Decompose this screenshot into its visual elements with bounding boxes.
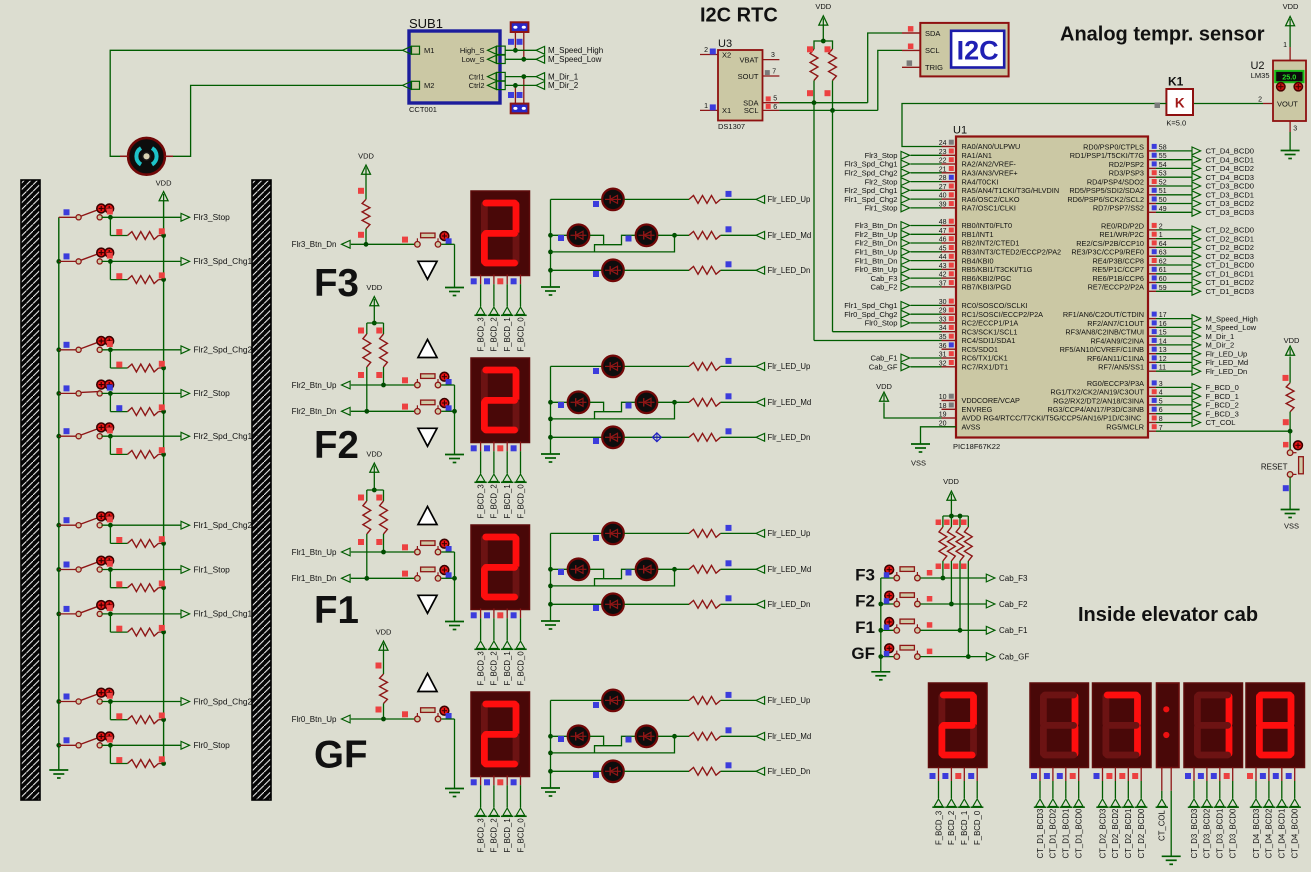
resistor pullup Flr0_Stop (110, 745, 166, 767)
connector J1 (511, 22, 529, 32)
U1 pin 49 right (1093, 204, 1254, 217)
svg-text:CT_D4_BCD0: CT_D4_BCD0 (1206, 147, 1255, 156)
svg-text:RF3/AN8/C2INB/CTMUI: RF3/AN8/C2INB/CTMUI (1065, 328, 1144, 337)
svg-text:VDD: VDD (876, 382, 892, 391)
svg-text:F1: F1 (314, 589, 359, 632)
svg-text:RA5/AN4/T1CKI/T3G/HLVDIN: RA5/AN4/T1CKI/T3G/HLVDIN (962, 186, 1060, 195)
terminal Flr_LED_Md F1 (658, 560, 811, 574)
wire LED mid bypass GF (551, 734, 677, 753)
svg-text:1: 1 (1283, 42, 1287, 49)
svg-text:Flr_LED_Dn: Flr_LED_Dn (768, 767, 811, 776)
svg-text:F3: F3 (855, 566, 875, 585)
svg-text:RG3/CCP4/AN17/P3D/C3INB: RG3/CCP4/AN17/P3D/C3INB (1047, 405, 1144, 414)
U1 pin 7 right (1106, 423, 1163, 432)
terminal F_BCD_3 of GF (471, 776, 487, 853)
svg-text:RE2/CS/P2B/CCP10: RE2/CS/P2B/CCP10 (1076, 239, 1144, 248)
U1 pin 47 RB1 (855, 228, 994, 240)
7-seg display clock D2 (1093, 683, 1152, 768)
svg-text:F_BCD_3: F_BCD_3 (476, 818, 485, 852)
U1 pin 50 right (1067, 195, 1254, 208)
LED F3 mid-b (590, 225, 658, 252)
pin Ctrl2 (469, 81, 506, 90)
U1 pin 37 RB7 (870, 280, 1011, 292)
terminal Flr1_Btn_Dn (292, 571, 415, 584)
wire SCL net (779, 50, 902, 112)
svg-text:VDDCORE/VCAP: VDDCORE/VCAP (962, 396, 1021, 405)
connector J2 (511, 104, 529, 114)
svg-text:CT_COL: CT_COL (1206, 418, 1236, 427)
svg-text:RB3/INT3/CTED2/ECCP2/PA2: RB3/INT3/CTED2/ECCP2/PA2 (962, 248, 1062, 257)
pin Low_S (462, 55, 506, 64)
power VDD cab (943, 477, 959, 516)
U1 pin 51 right (1069, 186, 1254, 199)
U1 pin 29 RC1 (844, 307, 1043, 319)
svg-text:Flr_LED_Dn: Flr_LED_Dn (768, 433, 811, 442)
svg-text:Flr_LED_Dn: Flr_LED_Dn (768, 600, 811, 609)
button Flr2_Btn_Up (415, 372, 455, 388)
pin High_S (460, 46, 505, 55)
7-seg display F3 (471, 191, 530, 276)
svg-text:RF7/AN5/SS1: RF7/AN5/SS1 (1098, 363, 1144, 372)
subcircuit SUB1 body (409, 16, 500, 114)
svg-text:VDD: VDD (815, 2, 831, 11)
resistors F2 buttons (358, 283, 387, 411)
svg-text:F_BCD_1: F_BCD_1 (503, 651, 512, 685)
svg-text:F_BCD_1: F_BCD_1 (960, 811, 969, 845)
RTC U3 body (718, 38, 763, 131)
svg-text:RE4/P3B/CCP8: RE4/P3B/CCP8 (1092, 256, 1144, 265)
svg-text:RESET: RESET (1261, 462, 1288, 471)
terminal Flr1_Spd_Chg1 (102, 605, 253, 619)
svg-text:Flr_LED_Up: Flr_LED_Up (768, 529, 812, 538)
7-seg display F2 (471, 358, 530, 443)
wire LED rail F1 (548, 533, 553, 606)
ground cab (871, 672, 890, 680)
svg-text:CT_D2_BCD3: CT_D2_BCD3 (1098, 809, 1107, 859)
svg-text:F_BCD_1: F_BCD_1 (503, 317, 512, 351)
LED GF down (551, 761, 624, 783)
svg-text:K1: K1 (1168, 75, 1184, 89)
LED F1 up (551, 523, 624, 545)
terminal Flr_LED_Up F2 (624, 358, 811, 371)
terminal Flr2_Stop (102, 385, 231, 399)
svg-text:Flr1_Spd_Chg2: Flr1_Spd_Chg2 (194, 520, 253, 530)
svg-text:M_Speed_Low: M_Speed_Low (1206, 323, 1257, 332)
svg-text:F_BCD_1: F_BCD_1 (503, 818, 512, 852)
svg-text:Flr2_Stop: Flr2_Stop (194, 388, 231, 398)
I2C debugger logo (951, 31, 1004, 68)
terminal Flr_LED_Up F3 (624, 191, 811, 204)
button Flr1_Btn_Dn (415, 566, 455, 582)
svg-text:CT_D3_BCD2: CT_D3_BCD2 (1206, 199, 1255, 208)
U1 pin 42 RB6 (870, 271, 1011, 283)
elevator shaft rail right (252, 180, 271, 800)
svg-text:VDD: VDD (376, 628, 392, 637)
ground LED F1 (541, 604, 560, 629)
svg-text:Flr2_Stop: Flr2_Stop (865, 177, 898, 186)
svg-text:F_BCD_0: F_BCD_0 (516, 317, 525, 352)
button cab F1 (884, 618, 920, 634)
terminal Flr_LED_Dn F1 (624, 595, 810, 609)
svg-text:CT_COL: CT_COL (1158, 810, 1167, 841)
U1 pin 63 right (1071, 248, 1254, 261)
svg-text:Flr0_Btn_Up: Flr0_Btn_Up (855, 265, 898, 274)
svg-text:RB2/INT2/CTED1: RB2/INT2/CTED1 (962, 239, 1020, 248)
svg-text:1: 1 (704, 103, 708, 110)
svg-text:VOUT: VOUT (1277, 100, 1298, 109)
terminals CT_D3 (1185, 768, 1239, 859)
svg-text:TRIG: TRIG (925, 63, 943, 72)
resistor cab GF (961, 516, 972, 659)
svg-text:RA0/AN0/ULPWU: RA0/AN0/ULPWU (962, 142, 1021, 151)
svg-text:51: 51 (1159, 188, 1167, 195)
button RESET (1261, 431, 1303, 477)
I2C debugger body (920, 23, 1008, 77)
svg-text:Flr3_Spd_Chg1: Flr3_Spd_Chg1 (844, 160, 897, 169)
terminal F_BCD_2 of GF (484, 776, 500, 853)
switch Flr0_Spd_Chg2 (56, 688, 113, 704)
svg-text:M_Speed_High: M_Speed_High (548, 46, 603, 55)
svg-text:VDD: VDD (1284, 336, 1300, 345)
U1 pin 21 RA3 (844, 166, 1017, 178)
pin SOUT (738, 68, 780, 81)
svg-text:Flr2_Btn_Up: Flr2_Btn_Up (292, 381, 337, 390)
button Flr1_Btn_Up (415, 539, 455, 555)
U1 pin 1 right (1099, 230, 1254, 243)
wire M1 (110, 50, 402, 156)
svg-text:VDD: VDD (366, 283, 382, 292)
LED F3 mid-a (551, 225, 590, 247)
svg-text:RF5/AN10/CVREF/C1INB: RF5/AN10/CVREF/C1INB (1060, 345, 1144, 354)
terminal Flr3_Stop (102, 209, 231, 223)
svg-text:Flr1_Spd_Chg1: Flr1_Spd_Chg1 (844, 301, 897, 310)
svg-text:RD3/PSP3: RD3/PSP3 (1109, 169, 1144, 178)
I2C debugger pin SCL (902, 44, 940, 56)
svg-text:GF: GF (314, 734, 367, 777)
terminal F_BCD_1 of F2 (497, 442, 513, 519)
svg-text:Flr3_Stop: Flr3_Stop (865, 151, 898, 160)
svg-text:Cab_F3: Cab_F3 (870, 274, 897, 283)
svg-text:RD2/PSP2: RD2/PSP2 (1109, 160, 1144, 169)
svg-text:CT_D1_BCD0: CT_D1_BCD0 (1075, 808, 1084, 858)
U1 pin 6 right (1047, 405, 1238, 418)
U1 pin 62 right (1092, 256, 1254, 269)
svg-text:Flr0_Spd_Chg2: Flr0_Spd_Chg2 (844, 310, 897, 319)
svg-text:F_BCD_2: F_BCD_2 (490, 818, 499, 852)
svg-text:24: 24 (939, 140, 947, 147)
svg-text:18: 18 (939, 403, 947, 410)
terminal F_BCD_3 of F3 (471, 275, 487, 352)
U1 pin 12 right (1087, 354, 1248, 367)
wire cab left rail (878, 578, 883, 672)
LED F3 up (551, 189, 624, 211)
svg-text:CT_D4_BCD2: CT_D4_BCD2 (1206, 164, 1255, 173)
terminal Flr_LED_Up F1 (624, 525, 811, 538)
svg-text:Flr_LED_Md: Flr_LED_Md (768, 565, 812, 574)
svg-text:RE3/P3C/CCP9/REF0: RE3/P3C/CCP9/REF0 (1071, 248, 1144, 257)
svg-text:M_Dir_1: M_Dir_1 (1206, 332, 1235, 341)
svg-text:F_BCD_3: F_BCD_3 (1206, 409, 1239, 418)
svg-text:CT_D1_BCD0: CT_D1_BCD0 (1206, 261, 1255, 270)
svg-text:VDD: VDD (358, 152, 374, 161)
pin M1 (403, 46, 435, 55)
svg-text:Inside elevator cab: Inside elevator cab (1078, 604, 1258, 626)
svg-text:Cab_GF: Cab_GF (869, 363, 898, 372)
terminal Flr2_Btn_Dn (292, 404, 415, 417)
svg-text:Cab_F1: Cab_F1 (870, 354, 897, 363)
title I2C RTC (700, 5, 778, 27)
svg-text:CT_D2_BCD1: CT_D2_BCD1 (1124, 809, 1133, 859)
svg-text:CT_D3_BCD3: CT_D3_BCD3 (1206, 208, 1255, 217)
button Flr3_Btn_Dn (415, 232, 455, 248)
svg-text:F_BCD_2: F_BCD_2 (490, 317, 499, 351)
svg-text:VDD: VDD (943, 477, 959, 486)
U1 pin 60 right (1092, 274, 1254, 287)
LM35 U2 body (1250, 60, 1306, 121)
svg-text:RA3/AN3/VREF+: RA3/AN3/VREF+ (962, 169, 1018, 178)
terminals CT_D1 (1031, 768, 1085, 859)
U1 pin 28 RA4 (865, 175, 999, 187)
svg-text:ENVREG: ENVREG (962, 405, 993, 414)
svg-text:Cab_F2: Cab_F2 (870, 283, 897, 292)
svg-text:X1: X1 (722, 106, 731, 115)
terminal CT_COL (1156, 768, 1168, 842)
svg-text:Flr1_Spd_Chg1: Flr1_Spd_Chg1 (194, 609, 253, 619)
resistor cab F1 (953, 516, 964, 633)
pin M2 (403, 81, 435, 90)
7-seg display cab floor (929, 683, 988, 768)
svg-text:Flr1_Btn_Up: Flr1_Btn_Up (292, 548, 337, 557)
svg-text:F_BCD_2: F_BCD_2 (1206, 401, 1239, 410)
svg-text:RB7/KBI3/PGD: RB7/KBI3/PGD (962, 283, 1012, 292)
pin VOUT wire (1193, 97, 1273, 104)
svg-text:RA7/OSC1/CLKI: RA7/OSC1/CLKI (962, 204, 1016, 213)
svg-text:Flr3_Spd_Chg1: Flr3_Spd_Chg1 (194, 256, 253, 266)
ground LED GF (541, 771, 560, 796)
wire connector J1 (508, 32, 526, 62)
terminal Cab_GF (920, 649, 1029, 662)
svg-text:F1: F1 (855, 618, 875, 637)
LED F1 mid-a (551, 559, 590, 581)
svg-text:CT_D2_BCD2: CT_D2_BCD2 (1111, 809, 1120, 859)
svg-text:M2: M2 (424, 81, 434, 90)
terminal Flr_LED_Dn F2 (624, 428, 810, 442)
svg-text:F_BCD_2: F_BCD_2 (490, 651, 499, 685)
terminal Flr2_Spd_Chg2 (102, 341, 253, 355)
svg-text:35: 35 (939, 334, 947, 341)
LM35 display (1275, 71, 1303, 82)
svg-text:Cab_F3: Cab_F3 (999, 574, 1028, 583)
svg-text:High_S: High_S (460, 46, 485, 55)
pin Ctrl1 (469, 72, 506, 81)
LED GF mid-b (590, 726, 658, 753)
terminal F_BCD_2 of F2 (484, 442, 500, 519)
svg-text:RA4/T0CKI: RA4/T0CKI (962, 177, 999, 186)
svg-text:Ctrl1: Ctrl1 (469, 72, 485, 81)
svg-text:Flr_LED_Md: Flr_LED_Md (1206, 358, 1249, 367)
resistor pullup Flr1_Spd_Chg1 (110, 614, 166, 636)
svg-text:RE7/ECCP2/P2A: RE7/ECCP2/P2A (1088, 283, 1145, 292)
svg-text:M_Dir_2: M_Dir_2 (548, 81, 579, 90)
terminal Flr3_Spd_Chg1 (102, 253, 253, 267)
U1 pin 10 VDDCORE (939, 394, 1020, 406)
LM35 knobs (1277, 83, 1303, 109)
svg-text:F_BCD_0: F_BCD_0 (516, 818, 525, 853)
ground GF buttons (445, 719, 464, 797)
U1 pin 54 right (1109, 160, 1254, 173)
svg-text:Flr_LED_Md: Flr_LED_Md (768, 231, 812, 240)
svg-text:M1: M1 (424, 46, 434, 55)
resistor pullup Flr2_Spd_Chg2 (110, 350, 166, 372)
U1 pin 35 RC4 (939, 334, 1016, 346)
svg-text:RF1/AN6/C2OUT/CTDIN: RF1/AN6/C2OUT/CTDIN (1063, 310, 1144, 319)
ground LED F3 (541, 270, 560, 295)
ground reset (1281, 477, 1300, 530)
svg-text:SCL: SCL (744, 106, 759, 115)
terminal Flr3_Btn_Dn (292, 237, 415, 250)
svg-text:K: K (1175, 96, 1185, 111)
svg-text:RD5/PSP5/SDI2/SDA2: RD5/PSP5/SDI2/SDA2 (1069, 186, 1144, 195)
wire cab rail (943, 514, 968, 519)
terminal F_BCD_1 of GF (497, 776, 513, 853)
terminal F_BCD_1 of F3 (497, 275, 513, 352)
label GF (314, 734, 367, 777)
U1 pin 17 right (1063, 310, 1258, 323)
wire LED rail GF (548, 700, 553, 773)
U1 pin 46 RB2 (855, 236, 1020, 248)
svg-text:VDD: VDD (1283, 2, 1299, 11)
wire M2 (167, 85, 403, 156)
U1 pin 53 right (1109, 169, 1254, 182)
LED F2 down (551, 427, 624, 449)
terminal Flr0_Spd_Chg2 (102, 693, 253, 707)
up arrow GF (418, 674, 437, 692)
ground colon (1162, 768, 1181, 865)
svg-text:I2C RTC: I2C RTC (700, 5, 778, 27)
svg-text:Flr2_Spd_Chg1: Flr2_Spd_Chg1 (844, 186, 897, 195)
svg-text:F_BCD_1: F_BCD_1 (503, 484, 512, 518)
svg-text:CT_D3_BCD1: CT_D3_BCD1 (1216, 809, 1225, 859)
wire SDA net (779, 33, 902, 105)
svg-text:Analog tempr. sensor: Analog tempr. sensor (1060, 24, 1265, 46)
svg-text:M_Dir_1: M_Dir_1 (548, 72, 579, 81)
terminal M_Dir_2 (505, 81, 579, 90)
svg-text:CT_D2_BCD2: CT_D2_BCD2 (1206, 243, 1255, 252)
resistor pullup Flr0_Spd_Chg2 (110, 702, 166, 724)
svg-text:X2: X2 (722, 50, 731, 59)
U1 pin 15 right (1065, 328, 1234, 341)
resistor SDA pullup (807, 41, 823, 103)
U1 pin 45 RB3 (855, 245, 1061, 257)
power rail VDD (156, 178, 172, 763)
button cab F3 (884, 565, 920, 581)
svg-text:Flr2_Spd_Chg2: Flr2_Spd_Chg2 (844, 169, 897, 178)
U1 pin 27 RA5 (844, 184, 1059, 196)
svg-text:RA2/AN2/VREF-: RA2/AN2/VREF- (962, 160, 1017, 169)
U1 pin 64 right (1076, 239, 1254, 252)
svg-text:VSS: VSS (1284, 522, 1299, 531)
svg-text:RC5/SDO1: RC5/SDO1 (962, 345, 999, 354)
svg-text:Flr1_Stop: Flr1_Stop (865, 204, 898, 213)
svg-text:34: 34 (939, 325, 947, 332)
svg-text:Flr2_Btn_Dn: Flr2_Btn_Dn (855, 239, 898, 248)
terminal Flr0_Btn_Up (292, 711, 415, 724)
svg-text:RF6/AN11/C1INA: RF6/AN11/C1INA (1087, 354, 1144, 363)
wire left sensor bus (58, 217, 60, 761)
svg-text:RC2/ECCP1/P1A: RC2/ECCP1/P1A (962, 319, 1019, 328)
svg-text:RG2/RX2/DT2/AN18/C3INA: RG2/RX2/DT2/AN18/C3INA (1053, 396, 1144, 405)
svg-text:Cab_F1: Cab_F1 (999, 626, 1028, 635)
I2C debugger pin TRIG (902, 60, 943, 72)
U1 pin 24 RA0 (939, 140, 1021, 152)
svg-text:CT_D4_BCD0: CT_D4_BCD0 (1291, 808, 1300, 858)
7-seg display clock D1 (1030, 683, 1089, 768)
terminal Flr2_Spd_Chg1 (102, 427, 253, 441)
svg-text:CT_D2_BCD0: CT_D2_BCD0 (1206, 226, 1255, 235)
LED F1 down (551, 594, 624, 616)
svg-text:CT_D4_BCD1: CT_D4_BCD1 (1278, 809, 1287, 859)
U1 pin 44 RB4 (855, 254, 994, 265)
resistor GF button (376, 628, 392, 720)
up arrow F2 (418, 340, 437, 358)
svg-text:Flr_LED_Up: Flr_LED_Up (768, 195, 812, 204)
svg-text:RE5/P1C/CCP7: RE5/P1C/CCP7 (1092, 265, 1144, 274)
U1 pin 48 RB0 (855, 219, 1012, 231)
terminal F_BCD_1 of F1 (497, 609, 513, 686)
svg-text:Flr3_Stop: Flr3_Stop (194, 212, 231, 222)
ground LM35 (1281, 121, 1300, 159)
down arrow F2 (418, 428, 437, 446)
wire connector J2 (508, 74, 526, 103)
switch Flr1_Spd_Chg2 (56, 512, 113, 528)
svg-text:CT_D1_BCD2: CT_D1_BCD2 (1049, 809, 1058, 859)
svg-text:3: 3 (771, 52, 775, 59)
button cab GF (884, 644, 920, 660)
svg-text:Flr2_Spd_Chg2: Flr2_Spd_Chg2 (194, 345, 253, 355)
switch Flr2_Stop (56, 380, 113, 396)
svg-text:Flr_LED_Md: Flr_LED_Md (768, 398, 812, 407)
svg-text:CT_D4_BCD1: CT_D4_BCD1 (1206, 155, 1255, 164)
switch Flr1_Spd_Chg1 (56, 601, 113, 617)
button Flr0_Btn_Up (415, 706, 455, 722)
svg-text:RC0/SOSCO/SCLKI: RC0/SOSCO/SCLKI (962, 301, 1028, 310)
svg-text:Flr0_Spd_Chg2: Flr0_Spd_Chg2 (194, 696, 253, 706)
wire LED rail F2 (548, 366, 553, 439)
svg-text:RC3/SCK1/SCL1: RC3/SCK1/SCL1 (962, 327, 1018, 336)
terminal F_BCD_0 of F2 (511, 442, 527, 519)
resistor reset pullup (1283, 375, 1295, 434)
svg-text:CT_D1_BCD3: CT_D1_BCD3 (1036, 809, 1045, 859)
terminal Flr_LED_Dn GF (624, 762, 810, 776)
elevator shaft rail left (21, 180, 40, 800)
svg-text:F_BCD_0: F_BCD_0 (1206, 383, 1239, 392)
svg-text:F_BCD_2: F_BCD_2 (947, 811, 956, 845)
svg-text:Flr_LED_Dn: Flr_LED_Dn (768, 266, 811, 275)
resistor pullup Flr2_Spd_Chg1 (110, 436, 166, 458)
terminal Cab_F1 (920, 622, 1028, 635)
label cab F3 (855, 566, 897, 585)
terminal Flr1_Btn_Up (292, 544, 415, 557)
svg-text:F2: F2 (314, 424, 359, 467)
svg-text:Flr2_Btn_Dn: Flr2_Btn_Dn (292, 407, 337, 416)
U1 pin 33 RC2 (865, 316, 1019, 328)
terminal M_Speed_High (505, 46, 603, 55)
svg-text:PIC18F67K22: PIC18F67K22 (953, 442, 1000, 451)
U1 pin 61 right (1092, 265, 1254, 278)
LED F2 mid-b (590, 392, 658, 419)
svg-text:AVDD RG4/RTCC/T7CKI/T5G/CCP5/A: AVDD RG4/RTCC/T7CKI/T5G/CCP5/AN16/P1D/C3… (962, 414, 1142, 423)
U1 pin 39 RA7 (865, 201, 1016, 213)
